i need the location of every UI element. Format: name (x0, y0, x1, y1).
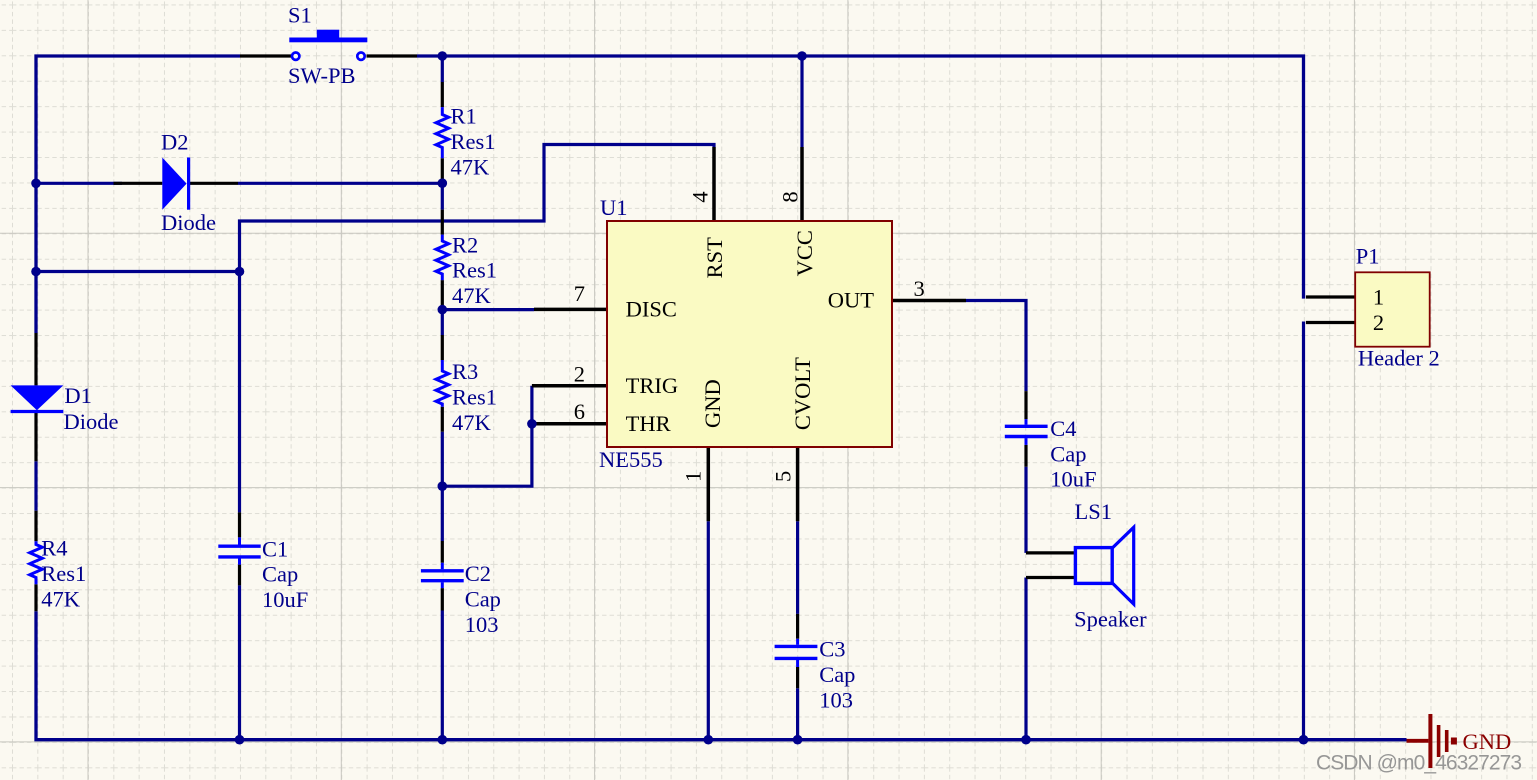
svg-text:Header 2: Header 2 (1358, 345, 1440, 370)
svg-text:1: 1 (681, 471, 706, 482)
svg-text:D1: D1 (64, 383, 92, 408)
pin D1 anode (34, 333, 37, 385)
junction left rail / y271 row (31, 267, 41, 277)
pin S1 right black (367, 54, 418, 57)
svg-text:R1: R1 (451, 103, 477, 128)
svg-text:5: 5 (771, 471, 796, 482)
svg-text:C2: C2 (465, 561, 491, 586)
switch S1 (289, 30, 367, 60)
svg-text:TRIG: TRIG (626, 373, 679, 398)
wire trig-thr loop (442, 386, 532, 486)
diode D2 (162, 158, 188, 210)
svg-text:Diode: Diode (64, 409, 119, 434)
svg-text:Res1: Res1 (452, 258, 497, 283)
pin R4 (34, 511, 37, 611)
pin U1 pin6 THR (532, 422, 607, 426)
wire out branch (966, 301, 1026, 553)
wire speaker bottom (1024, 578, 1027, 740)
svg-text:7: 7 (574, 281, 585, 306)
resistor R3 (436, 360, 449, 407)
junction left rail / D2 row (31, 179, 41, 189)
speaker LS1 (1075, 527, 1133, 604)
svg-text:Cap: Cap (465, 586, 501, 611)
header P1 (1355, 272, 1430, 346)
pin C3 (796, 614, 799, 688)
svg-text:CSDN @m0_46327273: CSDN @m0_46327273 (1316, 752, 1522, 775)
pin LS1 top (1026, 551, 1075, 554)
svg-text:Res1: Res1 (452, 384, 497, 409)
wire left rail navy segments (36, 56, 240, 333)
svg-text:GND: GND (700, 379, 725, 428)
pin U1 pin7 DISC (534, 308, 607, 312)
capacitor C3 (775, 639, 818, 667)
pin R2 (441, 210, 444, 306)
junction top rail / R1 (438, 51, 448, 61)
svg-text:C3: C3 (819, 637, 845, 662)
junction bottom rail / C3 (793, 735, 803, 745)
pin P1 pin1 (1306, 295, 1356, 298)
wire vcc (800, 56, 803, 147)
diode D1 (11, 385, 64, 411)
svg-text:6: 6 (574, 399, 585, 424)
wire R chain verticals (441, 56, 444, 740)
wire pin1 gnd (707, 521, 710, 739)
svg-text:C4: C4 (1050, 416, 1076, 441)
junction C1 column / y271 row (235, 267, 245, 277)
resistor R1 (436, 107, 449, 158)
junction THR loop (527, 419, 537, 429)
svg-text:R4: R4 (41, 536, 67, 561)
svg-text:R3: R3 (452, 359, 478, 384)
svg-text:47K: 47K (41, 586, 81, 611)
svg-text:S1: S1 (288, 3, 312, 28)
pin U1 pin5 CVOLT (796, 447, 800, 521)
svg-text:RST: RST (702, 237, 727, 279)
pin C1 (238, 512, 241, 585)
svg-text:R2: R2 (452, 232, 478, 257)
svg-text:103: 103 (465, 612, 499, 637)
wire top rail (417, 56, 1304, 299)
wire C1 bottom (238, 585, 241, 739)
svg-text:1: 1 (1373, 285, 1384, 310)
svg-text:LS1: LS1 (1075, 499, 1113, 524)
pin U1 pin4 RST (712, 147, 716, 221)
pin P1 pin2 (1306, 321, 1356, 324)
svg-text:2: 2 (1373, 310, 1384, 335)
pin D2 (114, 182, 239, 185)
junction R2-R3 / pin7 row (438, 305, 448, 315)
svg-text:103: 103 (819, 688, 853, 713)
svg-text:Cap: Cap (262, 562, 298, 587)
svg-text:NE555: NE555 (599, 447, 663, 472)
wire rst loop (240, 145, 715, 513)
svg-text:P1: P1 (1356, 243, 1380, 268)
pin U1 pin1 GND (707, 447, 711, 521)
wire D2 row (36, 182, 442, 185)
svg-text:U1: U1 (600, 195, 628, 220)
svg-text:2: 2 (574, 362, 585, 387)
svg-text:DISC: DISC (626, 296, 677, 321)
svg-text:Res1: Res1 (451, 129, 496, 154)
svg-text:D2: D2 (161, 130, 189, 155)
svg-text:47K: 47K (452, 410, 492, 435)
pin D1 cathode (34, 411, 37, 461)
svg-text:C1: C1 (262, 536, 288, 561)
svg-text:10uF: 10uF (1050, 467, 1096, 492)
svg-text:8: 8 (778, 191, 803, 202)
pin R3 (441, 335, 444, 432)
svg-text:Res1: Res1 (41, 561, 86, 586)
svg-text:THR: THR (626, 411, 671, 436)
junction bottom rail / pin1 (704, 735, 714, 745)
junction top rail / VCC (797, 51, 807, 61)
op-amp U1 NE555 body (607, 221, 892, 447)
junction R1-R2 / D2 row (438, 178, 448, 188)
svg-text:Diode: Diode (161, 210, 216, 235)
capacitor C1 (218, 537, 260, 564)
junction bottom rail / speaker (1021, 735, 1031, 745)
svg-text:47K: 47K (451, 154, 491, 179)
pin U1 pin8 VCC (800, 147, 804, 221)
ground GND power port (1407, 714, 1454, 768)
pin U1 pin2 TRIG (532, 384, 607, 388)
capacitor C4 (1005, 419, 1048, 445)
svg-text:VCC: VCC (792, 230, 817, 276)
resistor R2 (436, 235, 449, 281)
svg-text:Cap: Cap (1050, 441, 1086, 466)
junction bottom rail / right rail (1299, 735, 1309, 745)
svg-text:47K: 47K (452, 283, 492, 308)
wire y271 row (36, 270, 240, 273)
resistor R4 (30, 541, 43, 584)
junction R3-C2 / loop bottom (438, 481, 448, 491)
svg-text:3: 3 (914, 276, 925, 301)
svg-text:10uF: 10uF (262, 587, 308, 612)
pin U1 pin3 OUT (892, 299, 966, 303)
pin R1 (441, 82, 444, 183)
wire right rail (1302, 322, 1305, 740)
wire pin5 cvolt (796, 521, 799, 739)
pin C4 (1024, 391, 1027, 467)
svg-text:GND: GND (1463, 729, 1512, 754)
svg-text:Cap: Cap (819, 662, 855, 687)
pin S1 left black (240, 54, 291, 57)
pin LS1 bottom (1026, 576, 1075, 579)
svg-text:OUT: OUT (828, 287, 874, 312)
capacitor C2 (421, 563, 464, 588)
svg-text:SW-PB: SW-PB (288, 63, 356, 88)
junction bottom rail / C2 (438, 735, 448, 745)
svg-text:Speaker: Speaker (1074, 606, 1147, 631)
pin C2 (441, 541, 444, 611)
junction bottom rail / C1 (235, 735, 245, 745)
svg-text:CVOLT: CVOLT (790, 357, 815, 430)
wire pin7 row (442, 308, 534, 311)
svg-text:4: 4 (688, 191, 713, 202)
